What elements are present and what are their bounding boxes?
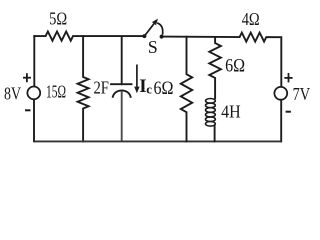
svg-text:15Ω: 15Ω [46,82,66,102]
svg-text:S: S [148,37,158,57]
svg-text:7V: 7V [293,84,311,104]
svg-text:8V: 8V [4,84,21,104]
svg-text:2F: 2F [93,78,109,98]
svg-text:6Ω: 6Ω [154,78,174,99]
svg-text:4Ω: 4Ω [242,9,260,29]
svg-text:4H: 4H [221,101,241,121]
svg-text:5Ω: 5Ω [49,8,67,28]
svg-text:c: c [146,82,152,97]
svg-text:6Ω: 6Ω [225,56,245,77]
